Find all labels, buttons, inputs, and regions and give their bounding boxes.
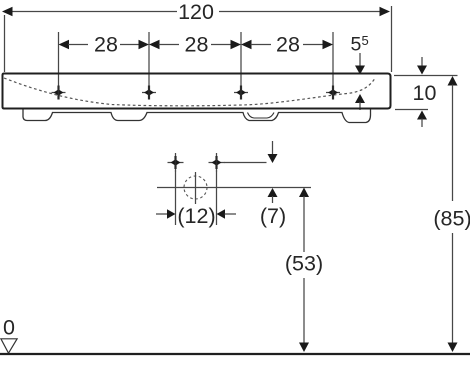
dimension 12 right extension line (216, 171, 218, 226)
dimension 85 line (448, 76, 458, 352)
basin skirt and feet (23, 110, 371, 123)
svg-text:28: 28 (276, 33, 300, 57)
svg-text:(12): (12) (177, 204, 215, 228)
svg-text:5: 5 (351, 34, 362, 56)
svg-text:120: 120 (178, 0, 214, 24)
dimension 53 line (299, 188, 309, 353)
detail tap hole marker right (209, 153, 225, 172)
dimension 120 line (12, 11, 380, 13)
svg-text:28: 28 (94, 33, 118, 57)
dimension 28 first span (59, 40, 150, 49)
dimension 10 bottom extension line (395, 109, 428, 111)
tap hole marker 2 (142, 86, 156, 100)
extension line tap hole 1 (58, 32, 60, 86)
extension line tap hole 3 (240, 32, 242, 86)
dimension 12 right arrow (217, 209, 237, 218)
datum triangle (1, 339, 17, 353)
dimension 10 label (413, 81, 437, 105)
svg-text:(53): (53) (285, 252, 323, 276)
dimension 28 third span (241, 40, 333, 49)
datum 0 label (3, 316, 15, 340)
dimension 12 left extension line (175, 171, 177, 226)
extension line left of 120 (4, 15, 6, 72)
dimension 12 label (177, 204, 215, 228)
svg-text:5: 5 (362, 33, 369, 48)
dimension 120 right arrow (380, 7, 391, 16)
tap hole plane line (224, 162, 267, 164)
dimension 120 left arrow (2, 7, 13, 16)
washbasin interior dashed profile (4, 78, 375, 106)
tap hole marker 1 (52, 86, 66, 100)
dimension 53 label (285, 252, 323, 276)
floor line (0, 353, 470, 355)
dimension 10 lower arrow (417, 111, 427, 128)
dimension 120 label (178, 0, 214, 24)
svg-text:(7): (7) (260, 204, 286, 228)
extension line right of 120 (391, 6, 393, 72)
dimension 10 top extension line (394, 75, 458, 77)
dimension 28 second label (185, 33, 209, 57)
svg-text:(85): (85) (433, 207, 470, 231)
dimension 10 upper arrow (417, 57, 427, 75)
tap hole marker 3 (234, 86, 248, 100)
dimension 28 second span (149, 40, 241, 49)
dimension 5.5 label (351, 33, 369, 56)
washbasin outline (3, 74, 391, 109)
dimension 7 lower arrow (268, 188, 278, 203)
extension line tap hole 4 (332, 32, 334, 86)
dimension 5.5 upper arrow (355, 53, 365, 75)
siphon cover inner line (248, 113, 275, 119)
dimension 7 label (260, 204, 286, 228)
tap hole marker 4 (326, 86, 340, 100)
dimension 7 upper arrow (268, 141, 278, 163)
dimension 28 first label (94, 33, 118, 57)
svg-text:10: 10 (413, 81, 437, 105)
drain hole dashed circle (184, 176, 207, 199)
dimension 12 left arrow (156, 209, 176, 218)
svg-text:28: 28 (185, 33, 209, 57)
svg-text:0: 0 (3, 316, 15, 340)
dimension 28 third label (276, 33, 300, 57)
drain plane line (157, 187, 311, 189)
dimension 5.5 lower arrow (355, 94, 365, 110)
dimension 85 label (433, 207, 470, 231)
detail tap hole marker left (168, 153, 184, 172)
drain vertical centerline (195, 172, 197, 204)
extension line tap hole 2 (148, 32, 150, 86)
